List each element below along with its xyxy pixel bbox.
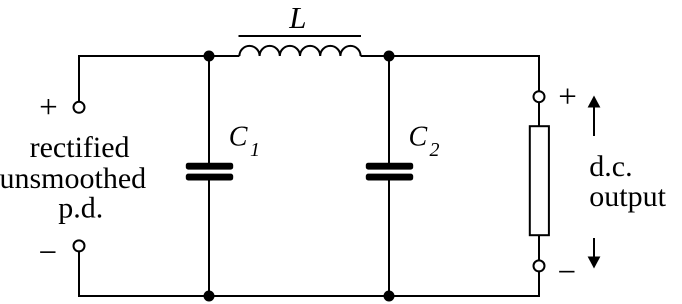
svg-text:−: − <box>38 235 57 271</box>
svg-text:rectified: rectified <box>30 131 130 164</box>
svg-text:+: + <box>39 90 58 126</box>
svg-text:+: + <box>558 79 577 115</box>
svg-text:C: C <box>229 121 248 152</box>
svg-text:1: 1 <box>250 139 260 161</box>
svg-text:p.d.: p.d. <box>58 192 103 225</box>
svg-text:unsmoothed: unsmoothed <box>0 162 146 195</box>
svg-text:output: output <box>589 180 666 213</box>
svg-text:−: − <box>557 255 576 291</box>
svg-text:L: L <box>288 0 306 35</box>
svg-text:C: C <box>409 121 428 152</box>
svg-text:2: 2 <box>430 139 440 161</box>
svg-text:d.c.: d.c. <box>589 150 632 183</box>
